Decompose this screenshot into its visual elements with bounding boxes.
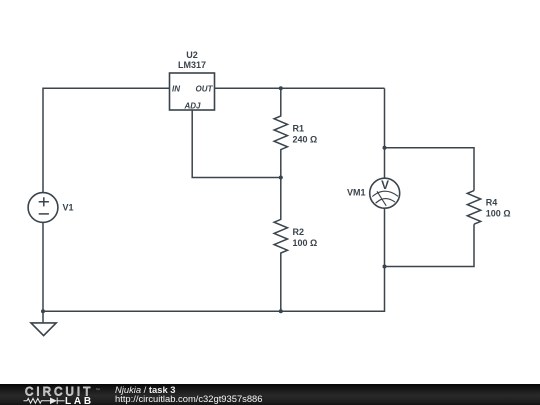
svg-text:OUT: OUT [196,84,214,93]
svg-text:R4: R4 [486,198,498,208]
wire from U2 OUT pin right along top to right rail [215,87,385,89]
wire from V1 top up left rail and right to U2 IN pin [43,88,170,192]
svg-text:100 Ω: 100 Ω [486,209,511,219]
wire right rail down from top corner [384,88,386,147]
wire bottom rail from lower node to ground junction [43,267,385,312]
node VM1 bottom branch [383,265,387,269]
resistor R1 240 Ohm [274,88,317,177]
wire V1 bottom to ground junction [42,222,44,311]
svg-text:VM1: VM1 [347,188,366,198]
node R2 bottom / bottom rail [279,309,283,313]
node VM1 top branch [383,146,387,150]
svg-text:™: ™ [96,388,101,393]
node R1 top / OUT rail [279,86,283,90]
resistor R4 100 Ohm [467,191,510,225]
wire from node to VM1 top [384,148,386,179]
wire from R4 bottom back to lower node [385,224,475,266]
CircuitLab logo [0,384,110,405]
wire from VM1 bottom to lower node [384,208,386,266]
svg-text:V: V [381,178,389,192]
wire branch to R4 top [385,148,475,191]
footer bar [0,384,540,405]
voltage source V1 [28,193,73,223]
node R1/R2/ADJ [279,176,283,180]
ground [31,311,56,335]
svg-text:R2: R2 [293,227,305,237]
node ground junction [41,309,45,313]
resistor R2 100 Ohm [274,178,317,312]
svg-text:ADJ: ADJ [183,101,201,110]
voltmeter VM1 [347,178,400,208]
svg-text:LM317: LM317 [178,60,206,70]
svg-text:240 Ω: 240 Ω [293,135,318,145]
svg-text:U2: U2 [186,50,198,60]
svg-text:100 Ω: 100 Ω [293,238,318,248]
IC U2: LM317 voltage regulator [170,50,215,110]
svg-text:R1: R1 [293,124,305,134]
svg-text:IN: IN [172,84,180,93]
svg-text:LAB: LAB [65,396,94,405]
svg-text:V1: V1 [63,203,74,213]
wire ADJ pin down and right to R1/R2 node [192,110,281,178]
